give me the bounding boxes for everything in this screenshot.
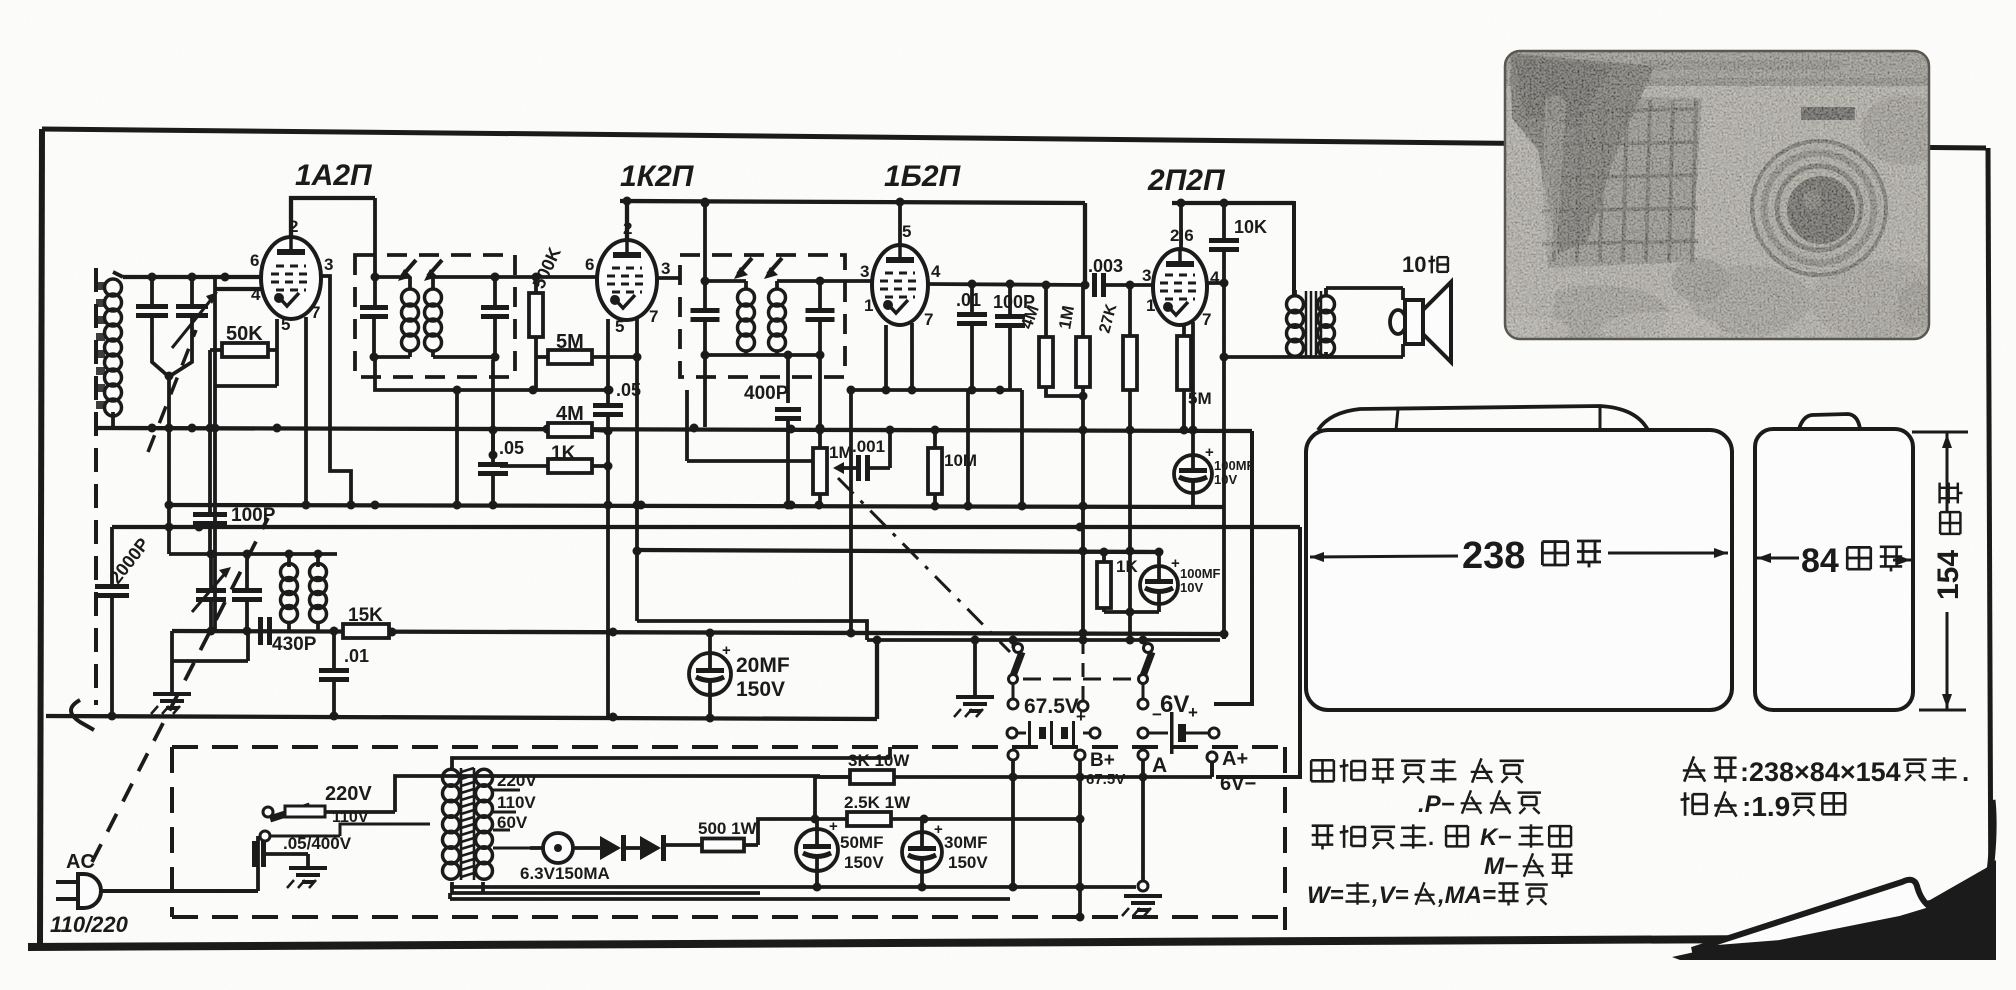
bus y527 — [112, 525, 1300, 529]
resistor 4M h — [548, 423, 592, 437]
wire AVC drop x457 — [455, 390, 459, 505]
PT secondary coil — [476, 769, 493, 786]
diode D1 — [600, 836, 621, 860]
wire 50K left lead — [210, 348, 222, 352]
battery 67.5V tap dash — [1082, 640, 1085, 700]
power transformer core — [461, 768, 474, 772]
wire V1 top-bus drop — [373, 198, 377, 305]
resistor 50K — [222, 343, 268, 357]
PT top link — [481, 882, 485, 893]
AC plug — [78, 874, 101, 908]
wire A+ drop right — [1216, 527, 1300, 777]
bus y550 — [637, 550, 1160, 552]
wire 6V drop right — [1214, 431, 1252, 704]
text volume line — [1684, 756, 1694, 781]
resistor 10M — [928, 448, 942, 494]
wire V3 top — [898, 202, 902, 245]
wire V2 plate top — [625, 201, 629, 240]
IF transformer T1 dashed box — [355, 255, 515, 377]
tube V2 1К2П — [597, 240, 657, 320]
resistor 15K — [343, 624, 389, 638]
IF1 primary cap — [360, 305, 388, 310]
IF1 secondary coil — [425, 289, 442, 306]
wire rect out up — [758, 819, 815, 845]
wire y461 link — [687, 459, 819, 463]
IF2 primary cap — [691, 308, 720, 313]
battery 67.5V — [1007, 728, 1017, 738]
wire y661 seg — [172, 659, 248, 663]
wire x608 drop — [606, 431, 610, 716]
IF1 primary coil — [402, 289, 419, 306]
IF2 tuning arrows — [738, 258, 752, 274]
wire IF1 cap to V2 grid — [495, 275, 598, 279]
tuning capacitor C1a — [136, 304, 168, 309]
selector wires — [256, 836, 260, 862]
resistor 5M — [548, 350, 592, 364]
text weight line — [1684, 792, 1687, 816]
cap 430P series — [258, 617, 263, 645]
switch S1b — [1144, 644, 1153, 653]
IF2 primary coil — [738, 289, 755, 306]
wire V1 plate to top bus — [291, 198, 375, 237]
wire top bus antenna to V1 grid — [123, 275, 262, 279]
terminal B+ label post — [1075, 750, 1085, 760]
voltage selector — [263, 807, 273, 817]
pilot lamp 6.3V — [543, 833, 573, 863]
wire under V3 — [851, 388, 1000, 392]
PT sec taps — [493, 789, 520, 792]
ground A — [1138, 881, 1148, 891]
electrolytic 50MF — [796, 829, 838, 871]
cap .05 a — [593, 403, 623, 408]
wire plug to selector — [256, 862, 260, 891]
PT primary coil — [443, 769, 460, 786]
IF transformer T2 dashed box — [680, 255, 845, 377]
side view outline — [1755, 429, 1913, 710]
wire V4 top — [1179, 203, 1183, 249]
resistor 500K — [529, 293, 543, 337]
wire osc top rail — [169, 552, 337, 556]
osc coil b — [310, 564, 327, 581]
potentiometer 1M — [813, 448, 827, 494]
cap .05/400V — [252, 841, 257, 867]
OT secondary coil — [1318, 296, 1335, 313]
bus y428 — [95, 428, 1252, 431]
antenna lower loop — [71, 700, 94, 730]
wire x1224 long drop — [1222, 283, 1226, 357]
wire IF2 sec to V3 grid — [820, 279, 872, 283]
wire V3 pin4 right — [929, 284, 1087, 285]
terminal B- 67.5V — [1008, 750, 1018, 760]
resistor 4M vert — [1039, 337, 1053, 387]
IF2 secondary cap — [806, 308, 835, 313]
bus y716 — [46, 716, 877, 719]
resistor 3K 10W — [850, 770, 894, 784]
bus y639 — [867, 638, 1220, 642]
PT primary top wire — [452, 758, 890, 768]
wire grid-2 vertical — [213, 277, 217, 630]
resistor 5M vert — [1177, 336, 1191, 390]
wire y776 rail — [820, 775, 1212, 779]
bottom rail y899 — [448, 893, 452, 899]
wire 500K top — [534, 277, 538, 293]
IF2 secondary coil — [769, 289, 786, 306]
wire second grid line — [215, 287, 263, 291]
resistor 1M vert — [1076, 337, 1090, 387]
B+ bus corner to OT — [1286, 203, 1294, 295]
wire x1022 drop — [1020, 390, 1024, 506]
wire V2 plate right — [657, 276, 681, 280]
antenna coil L1 — [105, 279, 122, 296]
bottom rail y887 — [450, 885, 1136, 889]
ground ps — [292, 852, 308, 856]
side view dimension line — [1757, 557, 1799, 560]
resistor 1K bias — [1097, 562, 1111, 608]
height dimension line — [1912, 431, 1968, 434]
wire V1 pin7 drop — [304, 317, 308, 505]
wire 500K avc link — [534, 357, 538, 390]
text capacitor units line1 — [1311, 759, 1334, 762]
IF2 bottom wires — [705, 353, 820, 357]
front view dimension line — [1310, 556, 1458, 557]
OT bottom leads — [1293, 355, 1297, 358]
resistor 27K vert — [1123, 336, 1137, 390]
tuning capacitor C1b variable — [176, 304, 208, 309]
page border frame — [42, 129, 1986, 148]
electrolytic 100MF upper — [1174, 455, 1212, 493]
wire V1 pin3 right — [319, 276, 351, 505]
OT primary coil — [1287, 296, 1304, 313]
IF1 sec drop — [491, 360, 495, 455]
ground left — [170, 631, 174, 694]
wire x1083 B+ drop — [1081, 396, 1085, 640]
output transformer core — [1305, 291, 1308, 356]
wire IF2 primary feed — [703, 203, 707, 281]
wire V1 pin5 drop — [275, 319, 279, 386]
electrolytic 20MF — [689, 653, 731, 695]
wire 4M leads — [592, 430, 608, 431]
tube V1 1А2П — [261, 237, 321, 319]
wire 5M ends — [536, 355, 548, 359]
osc variable cap — [196, 588, 226, 593]
tube V3 1Б2П — [872, 245, 928, 325]
antenna rod dashed core — [94, 268, 98, 705]
bus y505 — [170, 505, 1224, 507]
wire V4 pin7 drop — [1191, 322, 1195, 455]
B+ top bus — [620, 201, 1085, 203]
tube V4 2П2П — [1153, 249, 1207, 325]
switch link dashes — [1023, 678, 1136, 681]
wire v2 pin5 — [606, 319, 610, 390]
resistor 500ohm — [666, 843, 702, 847]
wire 50K right lead — [268, 348, 277, 352]
battery 6V — [1138, 728, 1148, 738]
electrolytic 30MF — [902, 832, 942, 872]
page curl — [1672, 860, 1996, 960]
IF1 tuning arrows — [402, 260, 416, 276]
ganged tuning dashed link — [92, 518, 268, 862]
diode D2 — [640, 836, 661, 860]
bus y631 — [172, 631, 1220, 634]
terminal A+ 6V- — [1207, 752, 1217, 762]
IF1 secondary cap — [481, 305, 509, 310]
speaker — [1390, 310, 1406, 334]
wire V4 plate right — [1208, 281, 1224, 285]
front view outline — [1306, 430, 1732, 710]
IF2 drops — [703, 355, 707, 427]
OT top leads — [1293, 290, 1297, 297]
wire pot top node — [816, 426, 825, 435]
wire x968 drop — [966, 390, 970, 506]
text resistor units line3 — [1312, 824, 1334, 827]
ground mid — [973, 640, 977, 697]
IF2 top wires — [705, 279, 746, 283]
osc fixed cap — [232, 588, 262, 593]
terminal A — [1138, 750, 1148, 760]
wire 1K leads — [500, 464, 548, 468]
B+ top bus right segment — [1172, 201, 1294, 205]
switch S1a — [1014, 644, 1023, 653]
osc coil a — [281, 564, 298, 581]
IF1 top wires — [374, 275, 410, 279]
wire y612 link — [1104, 610, 1159, 614]
wire V3 pins drop — [884, 325, 888, 390]
power-supply dashed enclosure — [172, 747, 1285, 930]
wire V2 pin7 drop — [635, 318, 639, 621]
cap .05 b — [478, 462, 508, 467]
wire y819 rail — [815, 817, 1080, 821]
IF1 bottom wires — [374, 355, 410, 359]
electrolytic 100MF lower — [1140, 566, 1178, 604]
PT primary bottom wire — [452, 882, 760, 893]
dash-dot link pot to switch — [838, 478, 1010, 652]
wire 500K bottom — [534, 337, 538, 357]
resistor 1K h — [548, 459, 592, 473]
resistor 2.5K 1W — [847, 812, 891, 826]
